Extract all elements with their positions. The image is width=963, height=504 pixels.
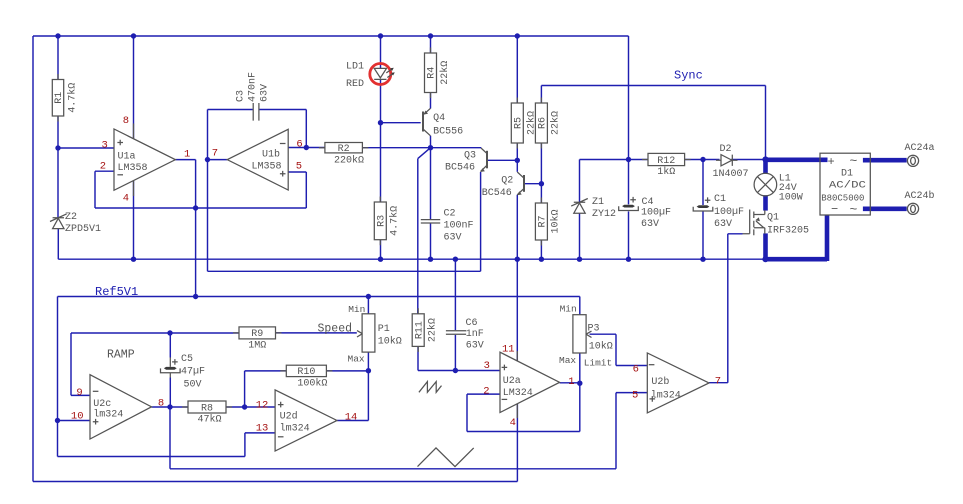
svg-text:1MΩ: 1MΩ [248,341,266,352]
transistor Q3 [445,148,487,173]
transistor Q2 [482,172,524,199]
svg-text:R11: R11 [414,321,425,339]
svg-text:U1b: U1b [262,149,280,161]
svg-text:RAMP: RAMP [107,349,135,362]
junction dot R1/Z2/pin3 node [55,145,60,150]
wire R1 bottom to Z2 [57,116,59,218]
svg-text:14: 14 [345,411,358,423]
junction dot LED cathode/Q4 base/R3 [378,120,383,125]
resistor R6 [535,98,561,149]
wire P3 wiper to U2b pin6 [590,334,648,365]
svg-text:Ref5V1: Ref5V1 [95,285,138,299]
svg-text:7: 7 [715,376,721,388]
capacitor C3 [236,72,271,121]
capacitor C1 [693,194,744,230]
svg-text:C6: C6 [466,318,478,329]
svg-text:BC556: BC556 [433,127,463,138]
zener diode Z2 [50,212,101,235]
junction dot R2/Q4 collector/C2/R11 [428,145,433,150]
svg-text:100µF: 100µF [714,207,744,218]
svg-text:U2b: U2b [651,376,669,388]
svg-text:R10: R10 [297,367,315,378]
junction dot ramp output node [167,404,172,409]
svg-text:Z1: Z1 [592,197,604,208]
svg-text:C1: C1 [714,194,726,205]
capacitor C6 [446,318,484,351]
wire C3 right leg to pin6 node [259,110,306,148]
svg-text:Q3: Q3 [464,151,476,162]
svg-text:12: 12 [256,399,269,411]
svg-text:1nF: 1nF [466,329,484,340]
svg-text:U2a: U2a [503,376,521,387]
wire U1a pin8 from top rail [133,36,135,139]
resistor R7 [535,198,561,246]
junction dots Ref5V1 rail [193,294,371,299]
pin labels U2d [256,399,358,434]
svg-text:9: 9 [76,387,82,399]
svg-text:C3: C3 [236,90,247,102]
svg-text:Z2: Z2 [65,212,77,223]
pin labels U1b [212,139,303,173]
sawtooth waveform glyph [419,382,442,393]
lamp L1 [754,173,803,203]
svg-text:2: 2 [483,386,489,398]
op-amp U1a [114,124,175,197]
svg-text:5: 5 [632,390,638,402]
svg-text:22kΩ: 22kΩ [550,111,562,135]
resistor R9 [233,327,282,352]
svg-text:RED: RED [346,79,364,90]
wire R11 bottom to U2a pin3 [418,346,500,370]
wire Ref5V1 rail to P3 Min [58,297,580,315]
svg-text:220kΩ: 220kΩ [334,154,364,166]
wire U1a pin3 [58,147,114,149]
junction dot P1 Max node [366,368,371,373]
capacitor C4 [619,197,671,230]
svg-text:C5: C5 [181,354,193,365]
svg-text:5: 5 [296,160,302,172]
svg-text:63V: 63V [444,233,462,244]
wire Q2 base [525,183,541,185]
svg-text:R6: R6 [538,117,549,129]
wire Q2 collector [516,160,518,172]
svg-text:P1: P1 [378,324,390,335]
svg-text:Limit: Limit [584,357,613,368]
svg-text:47µF: 47µF [181,366,205,377]
svg-text:AC/DC: AC/DC [829,180,866,192]
junction dot U2a pin1 node [577,381,582,386]
svg-text:Min: Min [348,304,365,315]
svg-text:~: ~ [850,154,858,169]
svg-text:100nF: 100nF [444,221,474,232]
wire thick lamp top lead [763,158,768,174]
svg-text:Max: Max [348,353,365,364]
wire thick bridge ~ to AC24a [863,158,907,163]
wire C4 leads [628,160,630,260]
svg-text:4: 4 [510,417,516,429]
wire R2 to Q3 collector node [362,147,481,149]
svg-text:63V: 63V [466,340,484,351]
wire thick lamp bottom to Q1 drain [763,195,768,210]
wire thick bus to bridge minus [764,215,828,261]
junction dot D2/lamp/Sync node [762,156,768,162]
resistor R1 [52,74,78,122]
junction dots common bus [131,257,706,262]
wire node to R11 drop [418,148,431,314]
svg-text:63V: 63V [714,219,732,230]
junction dots R12 row [626,157,706,162]
wire U1a pin1 output down to Ref5V1 node [175,160,195,297]
resistor R4 [425,48,451,99]
svg-text:AC24a: AC24a [905,143,935,154]
wire R1 top lead [57,36,59,80]
pin labels U1a [100,115,191,205]
svg-text:7: 7 [212,147,218,159]
svg-text:10kΩ: 10kΩ [378,336,402,348]
svg-text:63V: 63V [641,219,659,230]
op-amp U2d [275,390,337,451]
wire R5 leads [516,36,518,160]
wire R8 row to U2d pin12 [170,406,275,408]
svg-text:3: 3 [102,139,108,151]
junction dot U1b pin7/C3 [205,157,210,162]
svg-text:LM358: LM358 [118,163,148,174]
resistor R11 [412,308,438,352]
wire U1a pin4 to bus [133,181,135,260]
wire U1a pin2 feedback loop to U1b pin5 [95,171,306,208]
potentiometer P1 [348,304,402,365]
svg-text:BC546: BC546 [445,162,475,173]
bridge rectifier D1 [820,153,870,217]
op-amp U1b [227,129,288,190]
svg-text:ZPD5V1: ZPD5V1 [65,224,101,235]
wire U2d pin14 output up to P1 Max node [337,371,368,421]
wire V+ top rail [33,35,629,37]
junction dots top rail [55,33,520,38]
svg-text:R4: R4 [427,67,438,79]
svg-text:4.7kΩ: 4.7kΩ [389,206,401,236]
wire Z1 leads [579,160,581,260]
diode D2 [713,144,749,180]
svg-text:Q4: Q4 [433,113,445,124]
svg-text:10: 10 [71,411,84,423]
svg-text:8: 8 [158,398,164,410]
svg-text:R1: R1 [54,92,65,104]
svg-text:100W: 100W [779,192,803,203]
wire V+ right rail to R12 node [628,36,630,160]
wire U1b pin6 to R2 [288,147,325,149]
pin labels U2a [483,344,574,430]
wire ramp node down to U2b pin5 [170,393,647,469]
svg-text:13: 13 [256,422,269,434]
svg-text:U1a: U1a [118,152,136,163]
junction dot R8/R10/pin12 node [242,404,247,409]
svg-text:100µF: 100µF [641,207,671,218]
svg-text:IRF3205: IRF3205 [767,226,809,237]
svg-text:C2: C2 [444,209,456,220]
wire thick Q1 source to bus [763,233,768,259]
svg-text:ZY12: ZY12 [592,209,616,220]
junction dot bus at Q1 source [762,256,768,262]
svg-text:R7: R7 [538,215,549,227]
svg-text:D2: D2 [720,144,732,155]
wire R10 loop [245,371,369,407]
potentiometer P3 [559,304,613,369]
wire Q4 collector drop [430,136,432,148]
wire U2a pin2 feedback loop [467,383,580,431]
svg-text:Sync: Sync [674,69,703,83]
resistor R10 [280,365,332,389]
transistor Q4 [423,108,463,137]
wire U2c pin8 output [152,406,171,408]
svg-text:+: + [828,155,835,169]
svg-text:~: ~ [850,202,858,217]
svg-text:Min: Min [560,304,577,315]
svg-text:47kΩ: 47kΩ [197,414,221,426]
resistor R2 [319,143,369,167]
svg-text:100kΩ: 100kΩ [297,378,327,390]
wire V+ left rail [32,36,34,482]
resistor R12 [642,153,691,178]
svg-text:AC24b: AC24b [905,190,935,202]
svg-text:lm324: lm324 [93,408,123,420]
svg-text:6: 6 [633,363,639,375]
op-amp U2a [500,351,560,418]
junction dot Ref5V1 at U2c pin10 [55,418,60,423]
wire U1b pin7 output [208,159,228,161]
svg-text:R9: R9 [251,329,263,340]
wire C2 branch [430,148,432,260]
LED LD1 [346,62,395,91]
wire C6 leads [454,259,456,370]
resistor R8 [182,401,232,426]
wire R7 bottom to bus [540,240,542,259]
svg-text:1: 1 [568,376,574,388]
wire Q3 base to R5/Q2 node [488,159,517,161]
svg-text:R2: R2 [338,144,350,155]
svg-text:470nF: 470nF [248,72,259,102]
svg-text:C4: C4 [642,197,654,208]
svg-text:1N4007: 1N4007 [713,169,749,180]
junction dot integrator node at C5 top [167,330,172,335]
svg-text:LD1: LD1 [346,62,364,73]
svg-text:Q2: Q2 [501,175,513,186]
wire C5 leads [169,333,171,407]
svg-text:50V: 50V [184,380,202,391]
svg-text:8: 8 [123,115,129,127]
svg-text:3: 3 [484,360,490,372]
wire R12 row [580,159,766,161]
junction dot R6/Q2 base/R7 [539,181,544,186]
svg-text:22kΩ: 22kΩ [427,318,439,342]
resistor R5 [511,98,537,149]
pin labels U2b [632,363,721,401]
wire Z2 anode to common bus [58,228,765,259]
svg-text:Q1: Q1 [767,213,779,224]
svg-text:Speed: Speed [318,323,353,336]
svg-text:LM358: LM358 [252,162,282,173]
wire U2a pin4 supply drop [516,404,518,482]
svg-text:lm324: lm324 [280,422,310,434]
svg-text:U2d: U2d [280,411,298,423]
junction dot C6/U2a pin3 node [453,368,458,373]
wire R4 leads [430,36,432,109]
MOSFET Q1 [743,210,810,237]
svg-text:R5: R5 [514,117,525,129]
wire R6 bottom / R7 top [540,143,542,203]
svg-text:Max: Max [559,355,576,366]
wire U2c pin9 loop / integrator node row [71,333,239,395]
terminal AC24b [905,190,935,214]
svg-text:BC546: BC546 [482,188,512,199]
wire thick D2 node to bridge + [764,158,828,163]
svg-text:10kΩ: 10kΩ [589,340,613,352]
wire Ref5V1 net loop to U2c pin10 and U2d pin13 [58,297,276,457]
wire R3 bottom to bus [380,240,382,260]
terminal AC24a [905,143,935,166]
wire Q2 emitter to bus and U2a pin11 [516,195,518,361]
svg-text:11: 11 [502,344,515,356]
svg-text:R8: R8 [201,403,213,414]
wire LED cathode to Q4 base node and R3 [381,79,421,202]
svg-text:LM324: LM324 [503,388,533,399]
junction dot R5/Q3 base/Q2 collector [515,158,520,163]
wire C3 left leg [208,110,253,160]
svg-text:10kΩ: 10kΩ [550,209,562,233]
wire LED anode from top rail [380,36,382,68]
svg-text:63V: 63V [260,84,271,102]
svg-text:U2c: U2c [93,399,111,410]
svg-text:1: 1 [184,148,190,160]
capacitor C2 [421,209,474,244]
svg-text:2: 2 [100,160,106,172]
wire R9 to P1 wiper [276,332,357,334]
op-amp U2c [90,375,152,439]
resistor R3 [374,197,400,246]
svg-text:R12: R12 [657,156,675,167]
wire U1b output rail down to Q3 emitter rail [208,160,481,272]
svg-text:R3: R3 [377,215,388,227]
svg-text:4: 4 [123,193,129,205]
wire P1 top and bottom leads [367,297,369,371]
pin labels U2c [71,387,164,422]
svg-text:B80C5000: B80C5000 [821,194,864,204]
wire U2b pin7 output to Q1 gate [709,234,743,383]
svg-text:1kΩ: 1kΩ [657,166,675,178]
svg-text:−: − [831,202,838,216]
zener diode Z1 [571,197,616,220]
capacitor C5 [161,354,206,390]
op-amp U2b [647,353,709,413]
svg-text:D1: D1 [841,169,853,180]
triangle waveform glyph [418,448,474,467]
wire U2a pin1 output / P3 Max lead [560,353,580,383]
wire V+ bottom rail [33,481,517,483]
svg-text:4.7kΩ: 4.7kΩ [66,83,78,113]
wire Sync net [541,86,765,160]
svg-text:22kΩ: 22kΩ [439,61,451,85]
junction dot U1b pin6/C3/R2 [304,145,309,150]
svg-text:lm324: lm324 [651,390,681,402]
svg-text:6: 6 [296,139,302,151]
svg-text:P3: P3 [588,324,600,335]
junction dot U1a feedback [193,205,198,210]
wire thick bridge ~ to AC24b [863,207,907,212]
wire C1 leads [702,160,704,260]
